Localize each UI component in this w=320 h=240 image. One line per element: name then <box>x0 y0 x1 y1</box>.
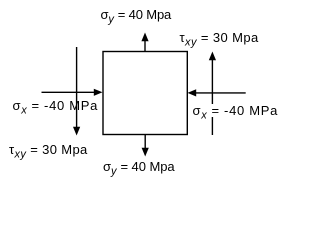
wire: top sigma-y arrow shaft <box>144 40 146 52</box>
arrowhead right sigma-x (left) <box>188 89 197 96</box>
square element <box>103 52 187 135</box>
arrowhead right tau (up) <box>209 52 216 61</box>
label tau-xy bottom left = 30 Mpa <box>9 142 88 161</box>
label sigma-x left = -40 MPa <box>13 98 99 117</box>
arrowhead top sigma-y (up) <box>141 33 148 42</box>
label sigma-x right = -40 MPa <box>193 103 279 122</box>
wire: right tau up arrow shaft lower segment <box>211 117 213 135</box>
stress element square <box>0 0 282 185</box>
label tau-xy top right = 30 Mpa <box>180 30 259 49</box>
wire: bottom sigma-y arrow shaft <box>144 135 146 149</box>
wire: right tau up arrow shaft upper segment <box>211 58 213 104</box>
arrowhead left sigma-x (right) <box>94 89 103 96</box>
label sigma-y bottom = 40 Mpa <box>103 159 175 178</box>
label sigma-y top = 40 Mpa <box>101 7 172 26</box>
arrowhead left tau (down) <box>73 127 80 136</box>
wire: left tau down arrow shaft <box>76 47 78 128</box>
wire: right sigma-x arrow shaft <box>196 92 246 94</box>
wire: left sigma-x arrow shaft <box>42 91 96 93</box>
arrowhead bottom sigma-y (down) <box>142 148 149 157</box>
